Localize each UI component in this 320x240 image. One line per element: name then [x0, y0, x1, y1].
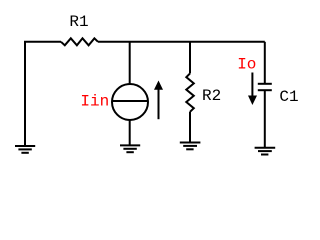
wire: branch down to current source top: [129, 42, 131, 85]
ground: under C1: [255, 147, 276, 149]
svg-text:R2: R2: [202, 87, 221, 105]
svg-text:Iin: Iin: [80, 93, 109, 111]
resistor R2: [186, 73, 194, 111]
arrow: Io direction (down): [251, 73, 253, 97]
wire: left vertical from top-left corner down to ground: [24, 42, 26, 146]
ground: bottom-left: [15, 145, 35, 147]
wire: capacitor bottom to ground: [264, 90, 266, 147]
svg-text:C1: C1: [279, 88, 298, 106]
wire: R2 bottom to ground: [189, 112, 191, 143]
wire: top-right corner down to capacitor C1: [264, 42, 266, 85]
capacitor C1: top plate: [258, 83, 272, 85]
wire: top horizontal, from R1 to top-right corner: [98, 41, 265, 43]
resistor R1: [61, 38, 98, 45]
capacitor C1: bottom plate: [258, 89, 272, 91]
svg-text:Io: Io: [237, 56, 256, 74]
ground: under current source: [120, 144, 140, 146]
wire: current source bottom to ground: [129, 120, 131, 145]
svg-text:R1: R1: [69, 13, 88, 31]
wire: branch down to R2: [189, 42, 191, 74]
ground: under R2: [180, 142, 201, 144]
arrow: Iin direction (up): [158, 89, 160, 119]
wire: top horizontal, left segment to R1: [24, 41, 61, 43]
current source Iin: circle with horizontal bar: [112, 84, 148, 120]
